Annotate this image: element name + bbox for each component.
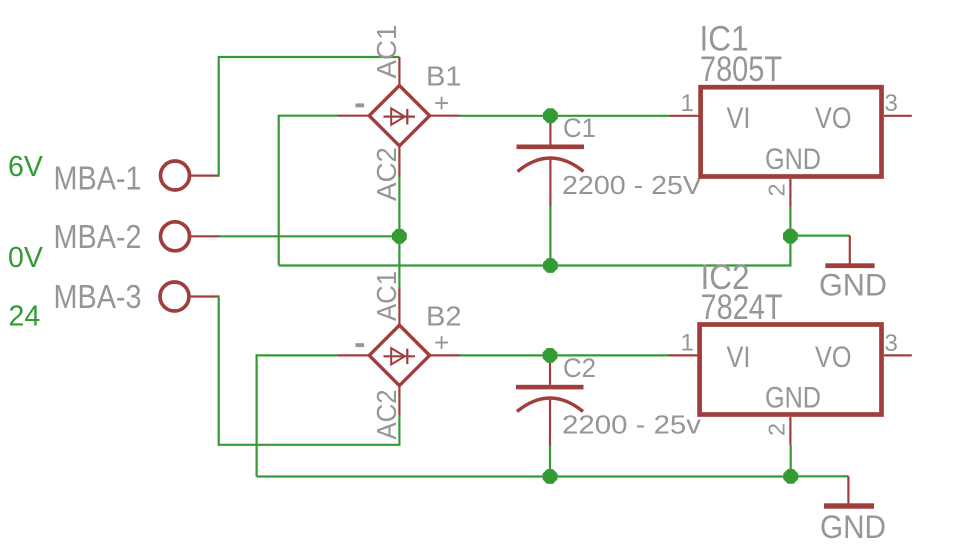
svg-text:+: + bbox=[434, 88, 449, 118]
wire B1 minus net bbox=[279, 116, 338, 266]
pin label minus (B1) bbox=[356, 103, 365, 107]
ground symbol GND1 bbox=[825, 236, 874, 268]
svg-text:2200 - 25v: 2200 - 25v bbox=[562, 412, 701, 440]
pin B2 minus bbox=[338, 354, 371, 356]
junction MBA-2 / AC2 bbox=[392, 229, 407, 244]
svg-text:AC2: AC2 bbox=[371, 147, 402, 201]
pin stub MBA-2 bbox=[189, 235, 220, 237]
ground symbol GND2 bbox=[824, 476, 874, 508]
svg-text:2200 - 25V: 2200 - 25V bbox=[562, 172, 702, 200]
junction IC2 pin2 / GND bbox=[783, 469, 798, 484]
svg-text:VI: VI bbox=[727, 102, 751, 135]
svg-text:AC1: AC1 bbox=[371, 271, 402, 321]
bridge B2 bbox=[369, 325, 429, 385]
wire IC1 pin2 lower bbox=[789, 207, 791, 237]
pin label minus (B2) bbox=[356, 343, 365, 347]
svg-text:GND: GND bbox=[765, 143, 821, 176]
connector MBA-1 bbox=[161, 161, 190, 190]
svg-text:+: + bbox=[434, 328, 449, 358]
capacitor C2 bbox=[516, 355, 584, 445]
regulator IC2 bbox=[700, 325, 882, 415]
wire ground rail bottom bbox=[257, 445, 791, 477]
pin B1 minus bbox=[338, 115, 371, 117]
connector MBA-3 bbox=[160, 282, 189, 311]
pin IC2 1 bbox=[669, 354, 700, 356]
wire MBA-2 net bbox=[220, 235, 400, 237]
svg-text:C2: C2 bbox=[563, 353, 596, 383]
svg-text:3: 3 bbox=[885, 330, 898, 357]
wire C1 lower lead bbox=[549, 206, 551, 266]
svg-text:MBA-1: MBA-1 bbox=[54, 161, 142, 198]
junction C2 bottom bbox=[543, 469, 558, 484]
pin B1 AC2 bbox=[398, 146, 400, 177]
svg-text:MBA-3: MBA-3 bbox=[54, 279, 142, 316]
junction C1 top bbox=[543, 108, 558, 123]
wire B2 minus net bbox=[257, 355, 338, 476]
svg-text:AC2: AC2 bbox=[371, 390, 402, 440]
svg-text:1: 1 bbox=[681, 330, 694, 357]
bridge B1 bbox=[369, 86, 429, 146]
svg-text:7824T: 7824T bbox=[701, 288, 783, 327]
junction IC1 pin2 / GND bbox=[783, 229, 798, 244]
svg-text:24: 24 bbox=[9, 301, 41, 333]
svg-text:7805T: 7805T bbox=[700, 50, 782, 89]
pin IC1 3 bbox=[884, 115, 912, 117]
svg-text:2: 2 bbox=[764, 423, 790, 436]
svg-text:2: 2 bbox=[764, 183, 790, 196]
connector MBA-2 bbox=[161, 222, 190, 251]
svg-text:GND: GND bbox=[819, 267, 887, 303]
svg-text:C1: C1 bbox=[563, 113, 596, 143]
pin stub MBA-1 bbox=[189, 175, 220, 177]
svg-text:AC1: AC1 bbox=[371, 25, 402, 79]
wire ground rail top bbox=[279, 236, 791, 265]
svg-text:VO: VO bbox=[815, 341, 852, 374]
wire C2 lower lead bbox=[549, 446, 551, 477]
regulator IC1 bbox=[701, 87, 882, 176]
pin stub MBA-3 bbox=[189, 295, 220, 297]
pin IC2 2 bbox=[789, 417, 791, 445]
svg-text:6V: 6V bbox=[8, 151, 43, 183]
pin B2 plus bbox=[429, 354, 460, 356]
svg-text:GND: GND bbox=[765, 382, 821, 415]
svg-text:GND: GND bbox=[820, 509, 886, 545]
pin IC1 1 bbox=[670, 115, 701, 117]
pin IC1 2 bbox=[789, 179, 791, 207]
pin B1 plus bbox=[429, 115, 460, 117]
pin B2 AC2 bbox=[398, 386, 400, 415]
pin IC2 3 bbox=[884, 354, 912, 356]
pin B1 AC1 bbox=[398, 57, 400, 86]
wire B1 plus to IC1 pin1 bbox=[460, 115, 670, 117]
capacitor C1 bbox=[517, 116, 585, 206]
wire AC2 to AC1 vertical bbox=[398, 177, 400, 289]
wire MBA-1 to B1 AC1 bbox=[219, 57, 400, 176]
svg-text:3: 3 bbox=[885, 90, 898, 117]
svg-text:0V: 0V bbox=[8, 242, 43, 274]
svg-text:VI: VI bbox=[727, 341, 751, 374]
wire MBA-3 to B2 AC2 bbox=[219, 297, 400, 445]
wire junction to GND2 bbox=[791, 475, 849, 477]
svg-text:MBA-2: MBA-2 bbox=[54, 219, 142, 256]
wire junction to GND1 bbox=[790, 235, 849, 237]
svg-text:1: 1 bbox=[681, 90, 694, 117]
wire B2 plus to IC2 pin1 bbox=[460, 354, 669, 356]
junction C2 top bbox=[543, 348, 558, 363]
pin B2 AC1 bbox=[398, 289, 400, 326]
junction C1 bottom bbox=[543, 258, 558, 273]
svg-text:VO: VO bbox=[815, 102, 852, 135]
